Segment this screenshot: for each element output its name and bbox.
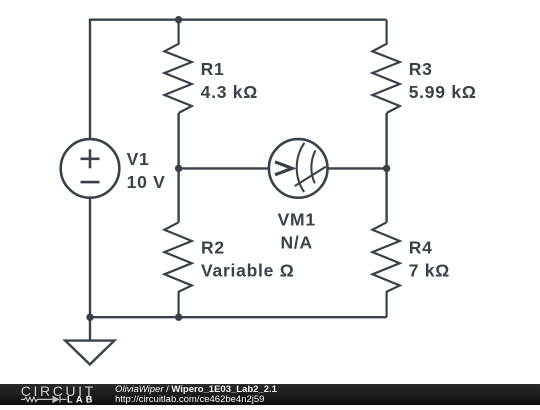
svg-text:R3: R3 <box>409 59 433 79</box>
svg-text:R1: R1 <box>201 59 225 79</box>
wire bottom horizontal <box>90 316 387 318</box>
node junction dot ground <box>86 314 93 321</box>
voltmeter VM1 <box>269 139 328 198</box>
svg-text:10 V: 10 V <box>127 172 166 192</box>
node junction dot bottom middle <box>175 314 182 321</box>
CircuitLab logo <box>0 384 110 405</box>
wire right vertical between R3 and R4 <box>385 113 387 222</box>
svg-text:V1: V1 <box>127 149 150 169</box>
svg-text:R4: R4 <box>409 238 433 258</box>
resistor R2 <box>164 222 191 317</box>
resistor R3 <box>372 20 399 113</box>
wire voltmeter right <box>327 167 387 169</box>
wire middle vertical between R1 and R2 <box>177 113 179 222</box>
node junction dot VM1-right <box>383 165 390 172</box>
svg-text:N/A: N/A <box>281 232 313 252</box>
ground <box>65 341 114 365</box>
wire left vertical upper <box>89 19 91 140</box>
resistor R1 <box>164 20 191 113</box>
wire ground stem <box>89 317 91 340</box>
footer bar <box>0 384 540 405</box>
svg-text:LAB: LAB <box>67 395 96 405</box>
svg-text:4.3 kΩ: 4.3 kΩ <box>201 82 258 102</box>
wire top horizontal <box>90 19 387 21</box>
svg-text:5.99 kΩ: 5.99 kΩ <box>409 82 477 102</box>
svg-text:R2: R2 <box>201 238 225 258</box>
node junction dot V1-VM1 <box>175 165 182 172</box>
wire left vertical lower <box>89 197 91 317</box>
wire voltmeter left <box>179 167 270 169</box>
resistor R4 <box>372 222 399 317</box>
voltage source V1 <box>61 139 120 198</box>
svg-text:7 kΩ: 7 kΩ <box>409 261 450 281</box>
node junction dot top <box>175 16 182 23</box>
footer credit text <box>115 385 277 404</box>
svg-text:Variable Ω: Variable Ω <box>201 261 295 281</box>
svg-text:VM1: VM1 <box>278 209 316 229</box>
